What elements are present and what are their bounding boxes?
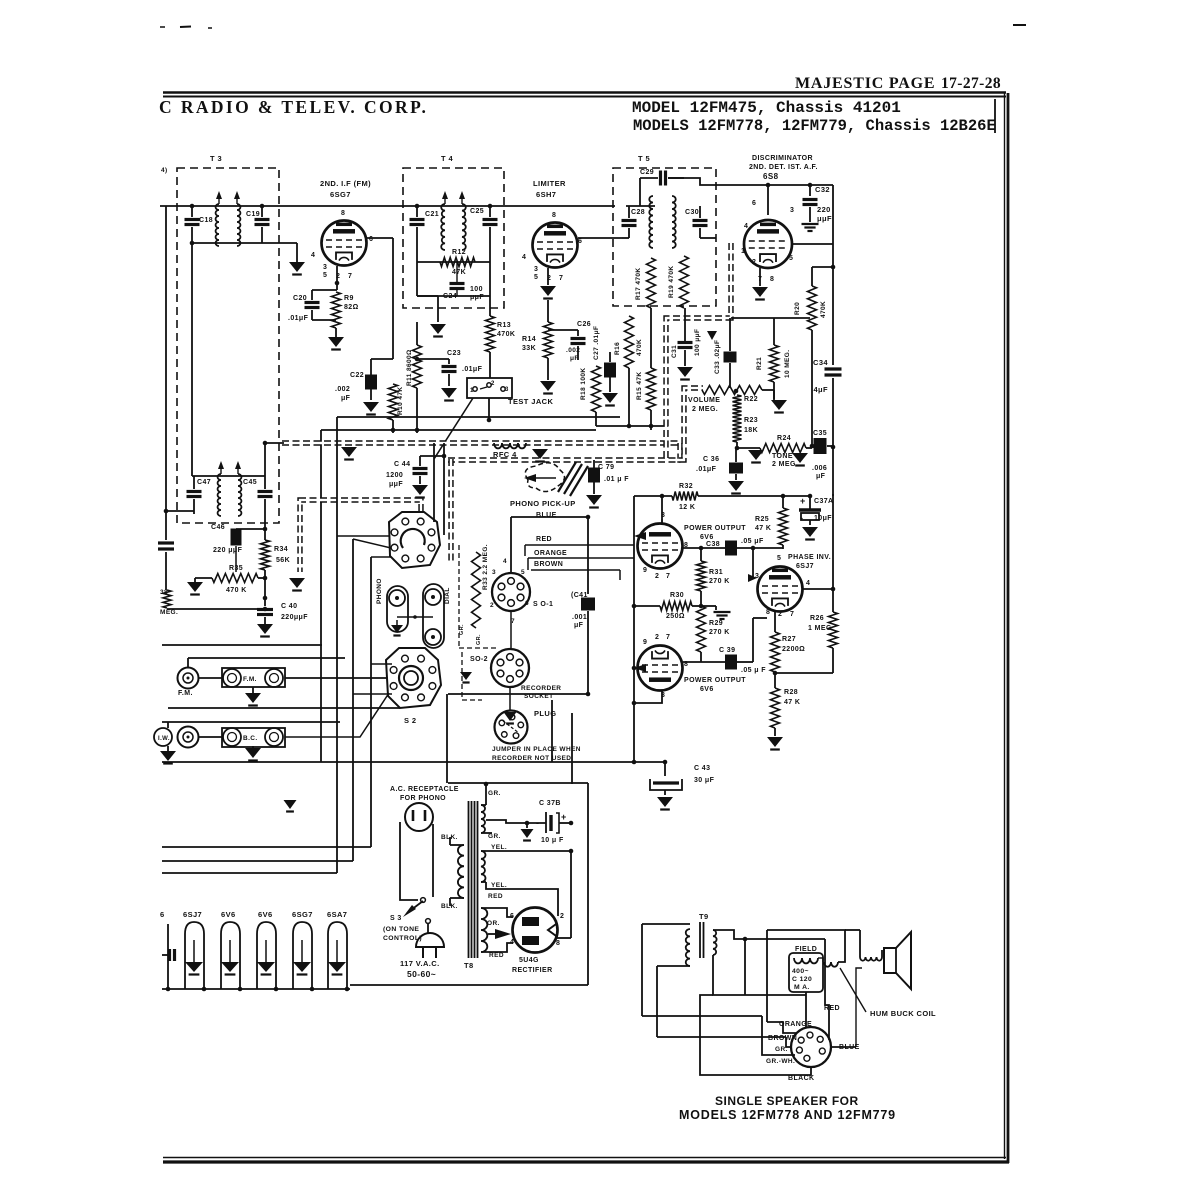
svg-text:5: 5 bbox=[789, 255, 793, 262]
wire T5 top to 6S8 bbox=[668, 178, 833, 185]
svg-text:LIMITER: LIMITER bbox=[533, 179, 566, 188]
svg-text:.4μF: .4μF bbox=[811, 385, 828, 394]
wire B+ rail mid bbox=[832, 446, 834, 496]
svg-text:R16: R16 bbox=[614, 342, 621, 355]
field coil box bbox=[789, 953, 823, 992]
shield cable bus B bbox=[448, 388, 703, 460]
svg-text:BROWN: BROWN bbox=[534, 561, 563, 568]
arrow on volume feed bbox=[707, 331, 717, 340]
svg-text:2: 2 bbox=[778, 611, 782, 618]
svg-text:3: 3 bbox=[505, 387, 509, 393]
svg-text:+: + bbox=[800, 496, 806, 506]
T4 coil secondary bbox=[462, 204, 466, 250]
svg-text:R23: R23 bbox=[744, 417, 758, 424]
capacitor C30 bbox=[699, 206, 701, 218]
ground under T4 bbox=[430, 324, 446, 334]
capacitor C31 bbox=[684, 308, 686, 341]
svg-text:R32: R32 bbox=[679, 483, 693, 490]
svg-text:470K: 470K bbox=[636, 339, 643, 356]
top border double rule bbox=[163, 91, 1006, 93]
svg-text:7: 7 bbox=[666, 573, 670, 580]
capacitor C23 bbox=[448, 359, 450, 364]
svg-text:C 36: C 36 bbox=[703, 456, 719, 463]
svg-text:2: 2 bbox=[655, 634, 659, 641]
FM wafer pair box bbox=[222, 668, 285, 687]
wire T3 inner vertical bbox=[191, 243, 193, 476]
wire 6V6-2 grid arrow bbox=[634, 664, 646, 672]
wires S2 to left nested bbox=[336, 417, 338, 873]
ground arrow near R24 bbox=[748, 450, 764, 460]
ground under C22 bbox=[363, 402, 379, 412]
svg-text:6: 6 bbox=[510, 913, 514, 920]
recorder cable shield dashes bbox=[458, 545, 460, 648]
ground under 6SH7 bbox=[540, 286, 556, 296]
junction dots T4 bbox=[415, 204, 420, 209]
BC wafer pair box bbox=[222, 728, 285, 747]
svg-text:RECORDER NOT USED: RECORDER NOT USED bbox=[492, 755, 571, 762]
svg-text:ORANGE: ORANGE bbox=[779, 1021, 812, 1028]
capacitor C43 bbox=[634, 761, 665, 763]
wire grid bus bbox=[160, 205, 615, 207]
wire bus A feed bbox=[265, 442, 284, 444]
resistor R22 bbox=[736, 390, 738, 395]
svg-text:12 K: 12 K bbox=[679, 504, 695, 511]
svg-text:.001: .001 bbox=[572, 614, 587, 621]
wire BROWN to amp bbox=[531, 569, 620, 571]
svg-text:2: 2 bbox=[560, 913, 564, 920]
T3 coil primary bbox=[216, 204, 219, 246]
svg-text:C23: C23 bbox=[447, 350, 461, 357]
wire test jack diagonal bbox=[434, 398, 473, 459]
svg-text:C46: C46 bbox=[211, 524, 225, 531]
T8 HV winding bbox=[481, 805, 485, 833]
svg-text:.006: .006 bbox=[812, 465, 827, 472]
model box line bbox=[994, 99, 996, 133]
shield cable bus A tail bbox=[680, 443, 683, 460]
wire 6SH7 plate bbox=[578, 237, 622, 239]
svg-text:TEST JACK: TEST JACK bbox=[508, 397, 553, 406]
svg-text:R27: R27 bbox=[782, 636, 796, 643]
svg-text:C28: C28 bbox=[631, 209, 645, 216]
svg-text:7: 7 bbox=[559, 275, 563, 282]
FM wafer single bbox=[178, 668, 199, 689]
svg-text:10μF: 10μF bbox=[814, 515, 832, 522]
svg-text:R29: R29 bbox=[709, 620, 723, 627]
ground under C43 bbox=[664, 790, 666, 795]
svg-text:6: 6 bbox=[160, 910, 165, 919]
svg-text:GR.: GR. bbox=[476, 634, 482, 645]
hum buck coil bbox=[824, 962, 838, 967]
svg-text:270 K: 270 K bbox=[709, 578, 730, 585]
wire 6V6 grid left arrow bbox=[634, 532, 646, 540]
capacitor C47 bbox=[193, 476, 195, 489]
grounds under BC wafers bbox=[167, 746, 169, 751]
capacitor C39 bbox=[683, 661, 725, 663]
resistor R32 12K bbox=[634, 495, 672, 497]
svg-text:.01μF: .01μF bbox=[696, 466, 717, 473]
wire R35-R34 junction down bbox=[263, 576, 268, 581]
svg-text:10 MEG.: 10 MEG. bbox=[784, 350, 791, 378]
wire centertap bbox=[486, 820, 527, 823]
transformer T3 box bbox=[177, 168, 279, 523]
bottom page border bbox=[163, 1157, 1006, 1159]
svg-text:FIELD: FIELD bbox=[795, 946, 817, 953]
svg-text:1: 1 bbox=[470, 388, 474, 394]
svg-text:4): 4) bbox=[161, 167, 168, 174]
svg-text:400~: 400~ bbox=[792, 968, 809, 975]
capacitor C45 bbox=[264, 476, 266, 489]
svg-text:B.C.: B.C. bbox=[243, 735, 258, 742]
wire RED to amp bbox=[525, 544, 634, 546]
wire R11 top bbox=[417, 321, 438, 323]
shield phono run bbox=[300, 500, 421, 572]
svg-text:R35: R35 bbox=[229, 565, 243, 572]
svg-text:JUMPER IN PLACE WHEN: JUMPER IN PLACE WHEN bbox=[492, 746, 581, 753]
svg-text:47 K: 47 K bbox=[784, 699, 800, 706]
svg-text:5: 5 bbox=[521, 569, 525, 576]
right page border bbox=[1004, 93, 1006, 1159]
svg-text:HUM BUCK COIL: HUM BUCK COIL bbox=[870, 1009, 936, 1018]
resistor R29 270K bbox=[697, 606, 706, 652]
svg-text:7: 7 bbox=[348, 273, 352, 280]
svg-text:BLUE: BLUE bbox=[536, 512, 557, 519]
wire C26 to R14 bbox=[548, 329, 578, 331]
svg-text:F.M.: F.M. bbox=[178, 690, 193, 697]
svg-text:GR.: GR. bbox=[459, 624, 465, 635]
capacitor C32 bbox=[809, 185, 811, 196]
ground arrow under 6S8 bbox=[752, 287, 768, 297]
heater loop 4 bbox=[293, 922, 312, 989]
T8 rectifier winding RED bbox=[481, 908, 487, 952]
capacitor C40 bbox=[263, 596, 268, 601]
svg-text:μF: μF bbox=[816, 473, 826, 480]
long wire y645 bbox=[162, 644, 322, 646]
pilot lamp 1 bbox=[387, 586, 408, 632]
ground under C23 bbox=[441, 388, 457, 398]
capacitor C37A electrolytic bbox=[809, 496, 811, 509]
tone potentiometer R24 bbox=[760, 444, 806, 453]
svg-text:S 3: S 3 bbox=[390, 915, 402, 922]
svg-text:SINGLE SPEAKER FOR: SINGLE SPEAKER FOR bbox=[715, 1094, 859, 1108]
wire T3 secondary bottom bbox=[192, 242, 297, 244]
shield drop to SO-1 bbox=[448, 459, 453, 563]
svg-text:C20: C20 bbox=[293, 295, 307, 302]
svg-text:TONE: TONE bbox=[772, 453, 793, 460]
svg-text:C26: C26 bbox=[577, 321, 591, 328]
wires T3 lower bbox=[192, 475, 265, 477]
wire 6SG7 cathode to R9 bbox=[336, 266, 338, 290]
svg-text:1200: 1200 bbox=[386, 472, 403, 479]
svg-text:9: 9 bbox=[643, 567, 647, 574]
resistor R15 47K bbox=[650, 308, 652, 368]
svg-text:T 3: T 3 bbox=[210, 154, 222, 163]
svg-text:μF: μF bbox=[574, 622, 584, 629]
svg-text:C34: C34 bbox=[813, 358, 828, 367]
svg-text:MEG.: MEG. bbox=[160, 609, 178, 616]
svg-text:6V6: 6V6 bbox=[700, 686, 714, 693]
T9 wires bbox=[642, 923, 690, 925]
heater loop stub left bbox=[167, 924, 169, 989]
junction dots T3 bbox=[190, 204, 195, 209]
ground under C44 bbox=[412, 485, 428, 495]
svg-text:POWER OUTPUT: POWER OUTPUT bbox=[684, 525, 746, 532]
T3 lower coil primary bbox=[218, 474, 221, 516]
ground under R14 bbox=[540, 381, 556, 391]
long bus y708 bbox=[168, 707, 400, 709]
svg-text:PHONO PICK-UP: PHONO PICK-UP bbox=[510, 499, 576, 508]
svg-text:C 39: C 39 bbox=[719, 647, 735, 654]
svg-text:270 K: 270 K bbox=[709, 629, 730, 636]
svg-text:T 5: T 5 bbox=[638, 154, 650, 163]
arrow ground C37A bbox=[802, 527, 818, 537]
svg-text:ORANGE: ORANGE bbox=[534, 550, 567, 557]
wire 6SJ7 cathode to R27 bbox=[774, 611, 776, 632]
svg-text:18K: 18K bbox=[744, 427, 758, 434]
resistor R35 470K bbox=[212, 574, 258, 583]
wire R20 taps bbox=[831, 265, 836, 270]
ground SO-2 bbox=[284, 800, 297, 809]
T3 lower coil secondary bbox=[238, 474, 241, 516]
svg-text:47 K: 47 K bbox=[755, 525, 771, 532]
svg-text:R11 8600Ω: R11 8600Ω bbox=[406, 349, 413, 386]
svg-text:BLK.: BLK. bbox=[441, 903, 458, 910]
svg-text:470K: 470K bbox=[820, 301, 827, 318]
svg-text:3: 3 bbox=[492, 569, 496, 576]
rotary switch S2 bbox=[386, 648, 441, 708]
svg-text:R31: R31 bbox=[709, 569, 723, 576]
arrow under recorder socket bbox=[509, 687, 511, 710]
svg-text:8: 8 bbox=[552, 212, 556, 219]
svg-text:8: 8 bbox=[770, 276, 774, 283]
svg-text:6: 6 bbox=[752, 200, 756, 207]
ground in loop2 bbox=[229, 940, 231, 962]
svg-text:RECORDER: RECORDER bbox=[521, 685, 561, 692]
svg-text:R18 100K: R18 100K bbox=[580, 368, 587, 400]
capacitor C19 bbox=[261, 206, 263, 217]
junction dot left bbox=[164, 509, 169, 514]
svg-text:R15 47K: R15 47K bbox=[636, 372, 643, 400]
svg-text:10 μ F: 10 μ F bbox=[541, 837, 564, 844]
svg-text:2: 2 bbox=[490, 602, 494, 609]
capacitor C22 bbox=[371, 358, 393, 360]
svg-text:R33 2.2 MEG.: R33 2.2 MEG. bbox=[482, 544, 489, 590]
svg-text:C18: C18 bbox=[199, 217, 213, 224]
svg-text:C38: C38 bbox=[706, 541, 720, 548]
capacitor C44 bbox=[419, 456, 421, 466]
transformer T4 box bbox=[403, 168, 504, 308]
socket SO-1 bbox=[492, 573, 530, 611]
svg-text:R20: R20 bbox=[794, 302, 801, 315]
svg-text:5U4G: 5U4G bbox=[519, 957, 539, 964]
svg-text:R26: R26 bbox=[810, 615, 824, 622]
ground bar R30 bbox=[701, 605, 716, 607]
wire 6SH7 cathode ground bbox=[547, 268, 549, 285]
svg-text:3: 3 bbox=[534, 266, 538, 273]
svg-text:RED: RED bbox=[489, 952, 504, 959]
capacitor C29 bbox=[659, 171, 662, 186]
ground in loop5 bbox=[336, 940, 338, 962]
resistor R25 47K bbox=[782, 496, 784, 508]
heater loop 1 bbox=[185, 922, 204, 989]
T3 coil secondary bbox=[237, 204, 240, 246]
junction dots R32 bbox=[781, 494, 786, 499]
svg-text:4: 4 bbox=[522, 254, 526, 261]
ground under bus A bbox=[532, 449, 548, 459]
svg-text:GR.-WH.: GR.-WH. bbox=[766, 1058, 795, 1065]
T5 coil secondary bbox=[672, 196, 676, 248]
resistor R28 47K bbox=[771, 688, 780, 728]
tube V3 6SG7 bbox=[322, 221, 367, 266]
svg-text:6V6: 6V6 bbox=[700, 534, 714, 541]
volume potentiometer bbox=[702, 386, 762, 395]
capacitor C21 bbox=[416, 206, 418, 217]
svg-text:T8: T8 bbox=[464, 961, 474, 970]
test jack box bbox=[467, 378, 512, 398]
resistor R34 56K bbox=[264, 529, 266, 540]
speaker wires bbox=[767, 930, 845, 962]
resistor R36 MEG left edge bbox=[163, 590, 171, 608]
heater stub cap bbox=[162, 954, 168, 956]
pilot lamp 1 arrow bbox=[396, 620, 398, 625]
resistor R30 250ohm bbox=[634, 605, 660, 607]
svg-text:8: 8 bbox=[341, 210, 345, 217]
svg-text:C29: C29 bbox=[640, 169, 654, 176]
receptacle loop wires bbox=[400, 822, 418, 900]
svg-text:C24: C24 bbox=[443, 293, 457, 300]
svg-text:82Ω: 82Ω bbox=[344, 304, 359, 311]
svg-text:C32: C32 bbox=[815, 185, 830, 194]
T4 coil primary bbox=[441, 204, 445, 250]
resistor R17 470K bbox=[647, 258, 656, 308]
svg-text:.05 μ F: .05 μ F bbox=[741, 667, 766, 674]
svg-text:2ND. DET. IST. A.F.: 2ND. DET. IST. A.F. bbox=[749, 164, 818, 171]
svg-text:8: 8 bbox=[766, 609, 770, 616]
resistor R27 2200ohm bbox=[771, 632, 780, 672]
tube V5 6S8 bbox=[744, 220, 792, 268]
svg-text:2 MEG.: 2 MEG. bbox=[772, 461, 798, 468]
wire R23 to tone bbox=[737, 447, 760, 449]
svg-text:RFC 4: RFC 4 bbox=[493, 450, 517, 459]
svg-text:5: 5 bbox=[777, 555, 781, 562]
svg-text:R12: R12 bbox=[452, 249, 466, 256]
svg-text:100: 100 bbox=[470, 286, 483, 293]
capacitor C26 bbox=[577, 330, 579, 336]
svg-text:S O-1: S O-1 bbox=[533, 601, 553, 608]
wire C46 bbox=[236, 528, 265, 530]
capacitor C46 bbox=[231, 529, 242, 546]
capacitor C36 bbox=[735, 448, 737, 462]
capacitor C27 bbox=[609, 352, 611, 362]
svg-text:R28: R28 bbox=[784, 689, 798, 696]
rectifier tube 5U4G bbox=[513, 908, 558, 953]
svg-text:C25: C25 bbox=[470, 208, 484, 215]
svg-text:PHASE INV.: PHASE INV. bbox=[788, 554, 831, 561]
svg-text:7: 7 bbox=[790, 611, 794, 618]
svg-text:GR.: GR. bbox=[488, 833, 501, 840]
svg-text:C19: C19 bbox=[246, 211, 260, 218]
heater loop 5 bbox=[328, 922, 347, 989]
resistor R11 8600ohm bbox=[416, 322, 418, 345]
svg-text:R24: R24 bbox=[777, 435, 791, 442]
svg-text:R17 470K: R17 470K bbox=[635, 268, 642, 300]
transformer T9 primary bbox=[686, 929, 690, 966]
T8 primary coil bbox=[458, 845, 464, 898]
resistor R31 270K bbox=[700, 548, 702, 561]
T8 heater winding YEL bbox=[481, 851, 485, 882]
plug symbol bbox=[495, 711, 528, 744]
ground on bus A bbox=[341, 447, 357, 457]
power box right wire bbox=[448, 782, 588, 784]
svg-text:M A.: M A. bbox=[794, 984, 810, 991]
heater loop 2 bbox=[221, 922, 240, 989]
svg-text:6S8: 6S8 bbox=[763, 172, 779, 181]
svg-text:GR.: GR. bbox=[488, 790, 501, 797]
wires S2 pins left bbox=[371, 663, 392, 665]
svg-text:CONTROL): CONTROL) bbox=[383, 935, 422, 942]
wire R21 top bbox=[773, 318, 775, 340]
hum buck pointer bbox=[840, 968, 866, 1012]
resistor R10 47K bbox=[392, 359, 394, 384]
ground arrow C36 bbox=[728, 481, 744, 491]
capacitor C41 bbox=[587, 517, 589, 594]
resistor R9 82ohm bbox=[332, 292, 341, 328]
wire 6V6 plate bottom bbox=[634, 691, 662, 703]
svg-text:μμF: μμF bbox=[389, 481, 403, 488]
svg-text:OR.: OR. bbox=[487, 920, 500, 927]
svg-text:RED: RED bbox=[536, 536, 552, 543]
svg-text:C RADIO & TELEV. CORP.: C RADIO & TELEV. CORP. bbox=[159, 97, 428, 117]
svg-text:3: 3 bbox=[790, 207, 794, 214]
power box bottom wire bbox=[350, 984, 588, 986]
wire C21 to ground bbox=[417, 295, 438, 297]
svg-text:C31: C31 bbox=[671, 345, 678, 358]
volume junction dot bbox=[734, 389, 739, 394]
capacitor C48 left edge bbox=[165, 511, 167, 540]
svg-text:8: 8 bbox=[556, 940, 560, 947]
svg-text:.002: .002 bbox=[335, 386, 350, 393]
wire B+ vertical right bbox=[832, 494, 834, 589]
tube V8 6V6 bottom bbox=[638, 646, 683, 691]
svg-text:.01 μ F: .01 μ F bbox=[604, 476, 629, 483]
ground under R9 bbox=[328, 337, 344, 347]
svg-text:2ND. I.F (FM): 2ND. I.F (FM) bbox=[320, 179, 371, 188]
svg-text:F.M.: F.M. bbox=[243, 676, 257, 683]
svg-text:7: 7 bbox=[666, 634, 670, 641]
svg-text:VOLUME: VOLUME bbox=[688, 397, 720, 404]
svg-text:C 44: C 44 bbox=[394, 461, 410, 468]
svg-text:6V6: 6V6 bbox=[258, 910, 273, 919]
wire 6SG7 plate to C22 node bbox=[367, 237, 393, 239]
svg-text:C 43: C 43 bbox=[694, 765, 710, 772]
pilot lamp 2 bbox=[423, 584, 444, 648]
transformer T9 secondary bbox=[713, 930, 717, 955]
svg-text:YEL.: YEL. bbox=[491, 844, 507, 851]
transformer T8 core bbox=[468, 801, 470, 958]
svg-text:MODELS 12FM778, 12FM779, Chass: MODELS 12FM778, 12FM779, Chassis 12B26E bbox=[633, 117, 996, 135]
svg-text:μμF: μμF bbox=[470, 294, 484, 301]
socket wires bbox=[825, 939, 829, 1040]
wire T4 interior bbox=[416, 240, 418, 296]
svg-text:A.C. RECEPTACLE: A.C. RECEPTACLE bbox=[390, 786, 459, 793]
capacitor C35 bbox=[806, 447, 812, 449]
svg-text:100 μμF: 100 μμF bbox=[694, 329, 701, 356]
AC plug bbox=[426, 919, 431, 924]
svg-text:.01μF: .01μF bbox=[462, 366, 483, 373]
shield cable bus A bbox=[282, 440, 680, 445]
resistor R16 470K bbox=[625, 316, 634, 368]
svg-text:T9: T9 bbox=[699, 912, 709, 921]
svg-text:50-60~: 50-60~ bbox=[407, 969, 436, 979]
